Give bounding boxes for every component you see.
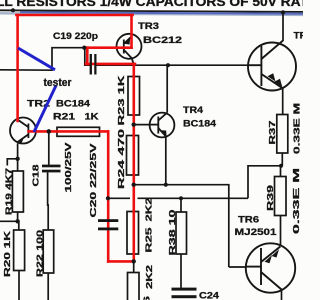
wire C18 top lead xyxy=(48,131,50,164)
svg-text:C24: C24 xyxy=(199,291,219,300)
wire from R37/R39 node down to y=198 net xyxy=(248,166,281,199)
wire R38 bottom to C24 xyxy=(180,254,182,288)
wire R23 to R24 xyxy=(133,115,135,136)
node junction dot C20 top tap xyxy=(106,196,110,200)
svg-text:R23 1K: R23 1K xyxy=(116,74,126,125)
transistor TR5 power darlington xyxy=(248,41,296,91)
resistor R24 body xyxy=(127,136,139,176)
wire feedback to left edge xyxy=(0,220,18,222)
svg-text:R24 470: R24 470 xyxy=(116,128,126,189)
node junction dot feedback node xyxy=(15,219,19,223)
svg-text:100/25V: 100/25V xyxy=(63,142,73,193)
svg-text:2K2: 2K2 xyxy=(144,265,154,289)
node junction dot R37 bottom / R39 top xyxy=(279,164,283,168)
node junction dot at C19 tap on TR3 base wire xyxy=(82,46,86,50)
wire R20 bottom to edge xyxy=(18,271,20,300)
svg-text:TR5: TR5 xyxy=(294,31,304,41)
node junction dot TR5 collector on rail xyxy=(281,10,285,14)
resistor R39 body xyxy=(275,177,287,216)
svg-text:C19 220p: C19 220p xyxy=(53,31,99,41)
node junction dot C20 top tap (over red) xyxy=(106,196,110,200)
wire red highlighted tester path xyxy=(16,15,135,261)
transistor TR6 emitter arrows (double, pointing toward base bar) xyxy=(265,255,273,263)
transistor TR3 (BC212) xyxy=(117,34,142,65)
transistor TR6 (MJ2501 power darlington) xyxy=(246,243,295,292)
wire R39 bottom to TR6 top xyxy=(280,216,282,247)
wire R38 top lead xyxy=(180,198,182,212)
wire TR2 emitter down to R19 xyxy=(17,144,19,172)
resistor R23 body xyxy=(128,77,140,116)
resistor R21 body xyxy=(57,127,100,136)
node junction dot C20 return (over red) xyxy=(132,259,136,263)
capacitor C24 plates xyxy=(172,288,197,291)
wire R22 bottom to edge xyxy=(47,273,49,300)
node junction dot TR4 collector tap xyxy=(166,63,170,67)
wire TR6 base horizontal xyxy=(229,266,247,268)
wire node to R39 top xyxy=(280,166,282,177)
wire main horizontal net TR3 collector to TR5 base xyxy=(95,64,248,66)
svg-text:R20 1K: R20 1K xyxy=(2,230,12,277)
wire horizontal net y=184.7 to right bend xyxy=(134,185,229,267)
annotation blue tester probe line A xyxy=(18,48,55,70)
svg-text:TR6: TR6 xyxy=(238,215,259,226)
svg-text:0.33E M: 0.33E M xyxy=(291,168,301,234)
wire TR4 base stub xyxy=(134,124,150,126)
node junction dot C18 tap on base line xyxy=(47,129,51,133)
svg-text:R39: R39 xyxy=(265,185,275,211)
wire TR4 emitter down xyxy=(165,137,167,185)
wire TR6 bottom lead xyxy=(281,290,283,300)
node junction dot TR2 emitter node xyxy=(15,157,19,161)
svg-text:BC184: BC184 xyxy=(56,99,90,109)
resistor R20 body xyxy=(14,230,25,271)
resistor R25 body xyxy=(127,212,139,255)
svg-text:BC184: BC184 xyxy=(183,118,217,129)
wire R19 bottom to node xyxy=(17,212,19,221)
svg-text:C18: C18 xyxy=(31,164,41,186)
capacitor C19 plates xyxy=(91,54,96,75)
wire TR3 base net: collector of TR2 up to C19/base wire (L shape) xyxy=(0,48,118,70)
svg-text:TR4: TR4 xyxy=(183,105,203,115)
node junction dot TR4 base tap xyxy=(132,123,136,127)
wire R37 bottom to node xyxy=(281,153,283,166)
wire horizontal net y=198.3 right part (break over chain) xyxy=(138,197,249,199)
wire C19 left lead down from base wire xyxy=(85,48,90,65)
wire TR5 collector to supply rail xyxy=(282,12,284,41)
transistor TR5 emitter arrows (double) xyxy=(268,73,276,81)
wire TR4 collector up to main net xyxy=(166,65,168,112)
svg-text:R25: R25 xyxy=(144,227,154,252)
capacitor C18 plates xyxy=(42,165,61,168)
node junction dot TR4 base tap (over red) xyxy=(132,123,136,127)
svg-text:MJ2501: MJ2501 xyxy=(235,227,278,238)
node junction dot chain/R24-R25 at y=184.7 xyxy=(132,183,136,187)
wire node to R20 top xyxy=(18,221,20,230)
resistor R22 body xyxy=(43,230,54,273)
svg-text:R21: R21 xyxy=(53,112,75,122)
wire supply rail dark blue highlight line xyxy=(20,12,303,13)
capacitor C19 plates (over red) xyxy=(91,54,96,75)
wire resistor chain vertical x=133.7 top segment xyxy=(133,65,135,76)
svg-text:tester: tester xyxy=(44,77,73,89)
wire C20 top lead (under red) xyxy=(107,198,109,219)
svg-text:2K2: 2K2 xyxy=(144,197,154,221)
wire C20 bottom lead and return (under red) xyxy=(108,230,134,261)
node junction dot C18 tap (over red) xyxy=(47,129,51,133)
node junction dot chain y=184.7 (over red) xyxy=(132,183,136,187)
wire TR2 base through R21 (black parts) xyxy=(29,130,57,132)
node junction dot C20 return tap xyxy=(132,259,136,263)
transistor TR4 emitter arrow xyxy=(160,130,166,137)
wire left stub from emitter node xyxy=(7,159,17,166)
svg-text:R37: R37 xyxy=(267,120,277,144)
svg-text:BC212: BC212 xyxy=(143,35,182,46)
svg-text:TR3: TR3 xyxy=(138,21,159,31)
wire C18 bottom lead to R22 xyxy=(47,172,50,230)
wire positive supply rail black line xyxy=(0,10,303,12)
resistor R37 body xyxy=(277,115,288,154)
svg-text:R22 100: R22 100 xyxy=(35,230,45,277)
node junction dot R38 tap xyxy=(179,196,183,200)
node junction dot on supply rail left xyxy=(11,8,15,12)
transistor TR3 emitter arrow xyxy=(124,38,130,45)
svg-text:1K: 1K xyxy=(85,112,100,122)
resistor R26 body (clipped at bottom) xyxy=(128,273,140,300)
svg-text:R26: R26 xyxy=(142,296,152,300)
wire horizontal net y=198.3 left part xyxy=(108,197,130,199)
wire R25 to R26 xyxy=(133,254,135,273)
wire supply rail light slate highlight band xyxy=(0,13,303,15)
transistor TR2 emitter arrow xyxy=(17,136,25,144)
svg-text:0.33E M: 0.33E M xyxy=(292,103,302,154)
resistor R19 body xyxy=(12,171,23,212)
wire TR5 emitter down to R37 xyxy=(282,88,284,115)
transistor TR2 (BC184) xyxy=(10,118,36,144)
resistor R38 body xyxy=(176,212,187,254)
transistor TR4 (BC184) xyxy=(150,113,175,138)
svg-text:C20 22/25V: C20 22/25V xyxy=(88,143,98,218)
svg-text:R38 10: R38 10 xyxy=(167,209,177,255)
capacitor C20 plates (drawn over red path) xyxy=(98,219,118,222)
node junction dot C19 tap (over red) xyxy=(82,46,86,50)
svg-text:R19 4K7: R19 4K7 xyxy=(3,168,13,215)
wire R24 to R25 xyxy=(133,175,135,212)
node junction dot TR4 emitter at y=184.7 xyxy=(164,183,168,187)
annotation blue tester probe line B xyxy=(34,86,56,133)
svg-text:LL RESISTORS 1/4W CAPACITORS O: LL RESISTORS 1/4W CAPACITORS OF 50V RAT xyxy=(0,0,303,9)
